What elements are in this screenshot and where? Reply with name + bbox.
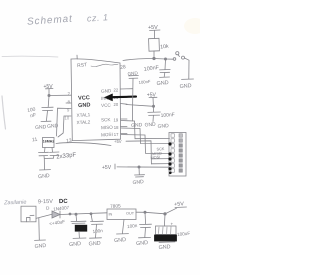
svg-text:2x33pF: 2x33pF	[56, 152, 77, 160]
wire XTAL2 to crystal	[58, 116, 71, 137]
+5V at VCC pin	[44, 84, 54, 96]
title Zasilanie 9-15V DC	[3, 199, 69, 207]
electrolytic C7	[71, 215, 87, 239]
wire crystal to right	[56, 143, 111, 146]
ground under jack	[34, 240, 46, 250]
wire node to switch	[154, 58, 173, 61]
black solder dots	[168, 142, 171, 174]
ground below +5V wire	[132, 167, 144, 186]
svg-text:XTAL2: XTAL2	[76, 119, 90, 125]
svg-text:RST: RST	[77, 62, 88, 69]
right side pin stubs	[120, 88, 132, 90]
capacitor C5	[129, 75, 152, 121]
pin 1 stub	[76, 55, 78, 59]
svg-text:GND: GND	[34, 243, 46, 250]
faint pencil smudge left	[2, 55, 58, 58]
svg-text:10k: 10k	[160, 44, 169, 51]
regulator U2 7805	[107, 203, 145, 233]
svg-text:XTAL1: XTAL1	[76, 112, 90, 118]
svg-text:8: 8	[68, 100, 71, 105]
svg-text:MOSI: MOSI	[101, 132, 113, 138]
node reset net	[153, 57, 155, 59]
capacitor C8	[91, 214, 104, 238]
wire bus tap row6	[151, 158, 169, 160]
svg-text:cz. 1: cz. 1	[87, 12, 109, 23]
node +5V out	[164, 213, 166, 215]
svg-text:+5V: +5V	[102, 165, 112, 171]
ground under crystal caps	[38, 170, 51, 181]
svg-text:100uF: 100uF	[177, 231, 191, 237]
wire MISO to connector	[121, 128, 170, 144]
node after 7805	[144, 211, 146, 213]
DC jack J2	[21, 206, 52, 240]
svg-text:nF: nF	[30, 112, 37, 119]
+5V to connector row 7	[102, 164, 170, 171]
svg-text:100nF: 100nF	[138, 79, 151, 85]
+5V rail top right	[148, 25, 160, 39]
title Schemat cz. 1	[27, 11, 109, 28]
IC U1 body	[71, 59, 121, 141]
svg-text:GND: GND	[132, 179, 144, 186]
svg-text:100nF: 100nF	[160, 112, 175, 119]
svg-text:100nF: 100nF	[143, 65, 160, 73]
svg-text:GND: GND	[78, 102, 91, 109]
svg-text:Schemat: Schemat	[27, 14, 74, 28]
svg-text:SCK: SCK	[101, 117, 112, 123]
wire AVCC to IC pin 20	[126, 105, 154, 107]
ground under C9	[136, 237, 151, 247]
wire bus tap row7	[151, 163, 169, 165]
resistor R1 10k	[149, 38, 170, 58]
capacitor C6 100nF	[148, 106, 175, 121]
capacitor C1 100nF at reset	[143, 60, 170, 78]
svg-text:1N4007: 1N4007	[53, 205, 70, 212]
capacitor C9 100nF	[127, 213, 152, 238]
svg-text:GND: GND	[88, 241, 101, 248]
ground row GND GND GND	[131, 122, 169, 130]
svg-text:MISO: MISO	[101, 125, 113, 131]
svg-text:VCC: VCC	[78, 95, 90, 102]
svg-text:IN: IN	[109, 213, 113, 217]
svg-text:100n: 100n	[92, 228, 103, 234]
wire VCC bus vertical	[126, 141, 151, 164]
svg-text:16MHz: 16MHz	[43, 140, 55, 144]
svg-text:GND: GND	[136, 240, 149, 247]
svg-text:22: 22	[114, 88, 119, 93]
svg-text:GND: GND	[179, 83, 192, 90]
svg-text:GND: GND	[35, 124, 47, 131]
ground under switch	[179, 79, 193, 90]
svg-text:GND: GND	[144, 122, 156, 129]
node at capacitor tap	[164, 58, 166, 60]
svg-text:100n: 100n	[127, 223, 138, 229]
svg-text:<+40uF: <+40uF	[49, 219, 66, 226]
svg-text:D: D	[46, 205, 51, 210]
+5V symbol bottom right	[165, 201, 187, 214]
wire to +5V node	[145, 212, 165, 214]
node VCC	[48, 94, 50, 96]
ground under 7805	[114, 234, 129, 244]
ground under C10	[158, 242, 175, 251]
wire node to IC RST	[123, 59, 154, 61]
svg-text:GND: GND	[158, 244, 171, 251]
svg-text:17: 17	[114, 132, 119, 137]
svg-text:+5V: +5V	[44, 84, 54, 90]
svg-text:11: 11	[32, 137, 38, 144]
crystal X1	[32, 137, 73, 148]
wire SCK to connector	[121, 121, 170, 139]
+5V AVCC	[147, 93, 157, 107]
svg-text:Zasilanie: Zasilanie	[3, 200, 27, 207]
svg-text:GND: GND	[101, 88, 112, 94]
svg-text:+5V: +5V	[114, 139, 122, 144]
node dots input rail	[69, 213, 71, 215]
ground under C8	[88, 238, 101, 248]
diode D1 1N4007	[46, 205, 107, 226]
svg-text:MOSI: MOSI	[150, 155, 160, 160]
svg-text:20: 20	[114, 102, 119, 107]
connector J1 ISP header	[168, 133, 186, 177]
ground under C1	[156, 77, 169, 87]
capacitors C3 C4 2x33pF	[39, 148, 77, 170]
ground under C2	[35, 121, 59, 131]
svg-text:9-15V: 9-15V	[38, 199, 53, 206]
svg-text:GND: GND	[38, 173, 50, 180]
svg-text:GND: GND	[69, 241, 82, 248]
annotation squiggle to pin 28	[91, 64, 118, 67]
capacitor C2 100nF at VCC	[27, 96, 53, 121]
svg-text:18: 18	[114, 125, 119, 130]
black marker arrow	[105, 94, 137, 101]
switch S1	[173, 52, 189, 79]
svg-text:19: 19	[114, 117, 119, 122]
wire XTAL1 to crystal	[57, 108, 72, 136]
svg-text:28: 28	[120, 64, 127, 71]
ground under C7	[69, 238, 86, 248]
svg-text:7: 7	[68, 92, 71, 97]
svg-text:GND: GND	[156, 80, 169, 87]
svg-text:GND: GND	[157, 123, 169, 130]
svg-text:OUT: OUT	[126, 212, 135, 216]
svg-text:VCC: VCC	[101, 103, 112, 109]
wire MOSI to connector	[121, 135, 170, 154]
svg-text:DC: DC	[59, 199, 69, 205]
svg-text:GND: GND	[114, 237, 127, 244]
electrolytic C10	[155, 214, 191, 241]
svg-text:13: 13	[66, 138, 73, 145]
paper tint blotch	[184, 18, 206, 34]
